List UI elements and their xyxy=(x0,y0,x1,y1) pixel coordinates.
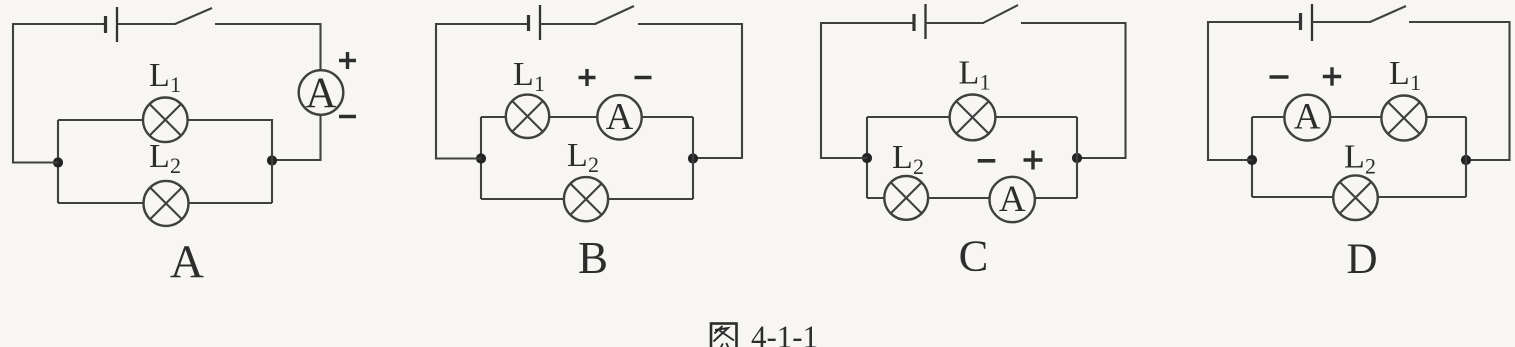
wire bottom branch B xyxy=(481,198,693,200)
svg-text:A: A xyxy=(170,236,204,288)
lamp L2 (circuit C) xyxy=(884,176,928,220)
label L1 circuit C xyxy=(959,55,991,95)
svg-text:L: L xyxy=(149,138,170,175)
svg-text:A: A xyxy=(1294,97,1321,138)
wire battery to switch C xyxy=(926,22,985,24)
label L2 circuit A xyxy=(149,138,181,178)
switch blade xyxy=(1370,6,1406,22)
polarity + xyxy=(579,69,596,86)
wire bottom branch C xyxy=(867,197,1077,199)
battery cell xyxy=(1301,4,1313,41)
wire left rail B xyxy=(435,23,437,160)
wire battery to switch A xyxy=(117,23,176,25)
ammeter A (circuit C) xyxy=(990,177,1035,222)
polarity - xyxy=(1270,75,1289,79)
label L2 circuit B xyxy=(567,137,599,177)
wire right rail B xyxy=(693,23,742,159)
caption character tu (figure) xyxy=(711,324,737,347)
svg-text:2: 2 xyxy=(1365,154,1376,179)
wire switch to right corner D xyxy=(1409,21,1510,23)
battery cell xyxy=(106,7,118,42)
wire top branch B xyxy=(481,116,693,118)
wire top-left segment C xyxy=(821,22,914,24)
lamp L1 (circuit B) xyxy=(506,95,549,138)
lamp L1 (circuit D) xyxy=(1381,96,1426,141)
wire right rail lower A xyxy=(272,114,321,161)
wire right rail upper A xyxy=(319,23,321,71)
wire bottom branch D xyxy=(1252,196,1466,198)
label L1 circuit B xyxy=(513,56,545,96)
wire right inner vertical A xyxy=(271,119,273,203)
svg-text:L: L xyxy=(513,56,534,93)
junction node xyxy=(1247,155,1257,165)
label L1 circuit A xyxy=(149,57,181,97)
svg-text:1: 1 xyxy=(170,72,181,97)
wire top branch D xyxy=(1252,116,1466,118)
svg-text:1: 1 xyxy=(1410,70,1421,95)
wire top-left segment A xyxy=(13,23,105,25)
wire switch to right corner B xyxy=(638,23,742,25)
junction node xyxy=(688,153,698,163)
polarity + xyxy=(1323,67,1341,85)
wire junction to left rail D xyxy=(1208,159,1252,161)
svg-text:A: A xyxy=(606,96,634,138)
junction node xyxy=(53,157,63,167)
battery cell xyxy=(529,5,541,40)
switch blade xyxy=(983,5,1018,23)
wire switch to right corner C xyxy=(1021,22,1126,24)
svg-text:1: 1 xyxy=(534,71,545,96)
wire switch to right corner A xyxy=(215,23,321,25)
battery cell xyxy=(914,4,926,39)
ammeter A (circuit D) xyxy=(1284,95,1330,141)
wire left rail C xyxy=(820,22,822,159)
wire right inner vertical B xyxy=(692,117,694,199)
polarity - xyxy=(339,115,356,118)
lamp L1 (circuit C) xyxy=(950,95,996,141)
svg-text:L: L xyxy=(892,139,913,176)
svg-text:B: B xyxy=(578,233,608,283)
wire junction to left rail A xyxy=(13,161,58,163)
wire top branch C xyxy=(867,116,1077,118)
switch blade xyxy=(175,8,212,24)
wire junction to left rail C xyxy=(821,157,867,159)
lamp L2 (circuit D) xyxy=(1333,175,1378,220)
lamp L2 (circuit B) xyxy=(564,177,608,221)
ammeter A (circuit A) xyxy=(299,70,344,117)
wire left inner vertical C xyxy=(866,117,868,198)
wire battery to switch D xyxy=(1312,21,1371,23)
wire left rail D xyxy=(1207,21,1209,161)
label L1 circuit D xyxy=(1389,55,1421,95)
label L2 circuit C xyxy=(892,139,924,179)
polarity - xyxy=(635,76,652,79)
polarity + xyxy=(1024,151,1043,170)
junction node xyxy=(267,155,277,165)
junction node xyxy=(476,153,486,163)
wire right rail C xyxy=(1077,22,1126,159)
wire top-left segment D xyxy=(1208,21,1300,23)
junction node xyxy=(1072,153,1082,163)
wire left inner vertical D xyxy=(1251,117,1253,197)
ammeter A (circuit B) xyxy=(597,95,641,139)
wire left rail A xyxy=(12,23,14,164)
svg-text:L: L xyxy=(959,55,980,92)
svg-text:L: L xyxy=(567,137,588,174)
junction node xyxy=(862,153,872,163)
svg-text:2: 2 xyxy=(913,154,924,179)
svg-text:A: A xyxy=(305,70,336,117)
wire top-left segment B xyxy=(436,23,528,25)
lamp L2 (circuit A) xyxy=(144,181,189,226)
label L2 circuit D xyxy=(1344,139,1376,179)
wire bottom branch A xyxy=(58,202,272,204)
svg-text:L: L xyxy=(1344,139,1365,176)
svg-text:1: 1 xyxy=(980,70,991,95)
polarity + xyxy=(339,52,356,69)
svg-text:D: D xyxy=(1346,236,1377,283)
wire right rail D xyxy=(1466,21,1510,161)
switch blade xyxy=(595,6,634,24)
wire left inner vertical B xyxy=(480,117,482,199)
svg-text:C: C xyxy=(959,231,989,281)
svg-text:L: L xyxy=(149,57,170,94)
wire junction to left rail B xyxy=(436,157,481,159)
junction node xyxy=(1461,155,1471,165)
svg-text:2: 2 xyxy=(170,153,181,178)
wire right inner vertical D xyxy=(1465,117,1467,197)
svg-text:L: L xyxy=(1389,55,1410,92)
svg-text:A: A xyxy=(999,179,1026,220)
wire right inner vertical C xyxy=(1076,117,1078,198)
wire left inner vertical A xyxy=(57,120,59,203)
polarity - xyxy=(978,159,996,163)
wire top branch A xyxy=(58,119,272,121)
svg-text:2: 2 xyxy=(588,152,599,177)
svg-text:4-1-1: 4-1-1 xyxy=(751,319,818,347)
wire battery to switch B xyxy=(540,23,596,25)
lamp L1 (circuit A) xyxy=(143,98,188,143)
